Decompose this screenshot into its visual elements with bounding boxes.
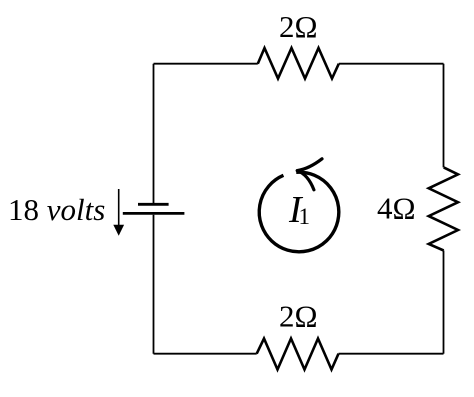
svg-text:4Ω: 4Ω: [377, 191, 416, 226]
svg-text:2Ω: 2Ω: [279, 299, 318, 334]
svg-text:I1: I1: [288, 189, 310, 231]
svg-text:18 volts: 18 volts: [8, 192, 105, 227]
svg-text:2Ω: 2Ω: [279, 9, 318, 44]
